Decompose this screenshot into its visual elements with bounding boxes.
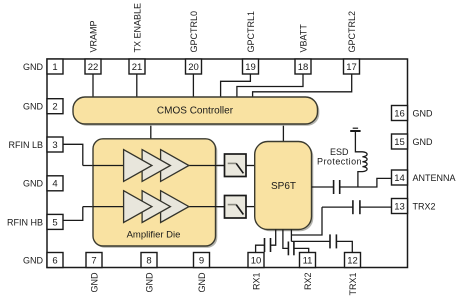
svg-text:21: 21 (132, 62, 143, 73)
svg-text:12: 12 (347, 255, 358, 266)
svg-text:6: 6 (52, 255, 57, 266)
wire RX2 capacitor to pin11 (294, 248, 309, 252)
svg-text:GND: GND (23, 102, 44, 112)
pin 20 (186, 59, 202, 74)
capacitor C2 (TRX2 series) (353, 200, 360, 214)
svg-text:GND: GND (197, 272, 207, 293)
svg-text:4: 4 (52, 179, 57, 190)
wire pin17 to CMOS controller (253, 74, 352, 97)
pin 12 (345, 253, 361, 268)
amplifier die shadow (95, 141, 218, 248)
svg-text:GND: GND (413, 137, 434, 147)
svg-text:11: 11 (303, 255, 313, 266)
pin 16 (392, 106, 408, 121)
capacitor C4 (RX1 series) (265, 238, 271, 252)
pin 4 (47, 176, 63, 191)
pin 14 (392, 170, 408, 185)
svg-text:TRX1: TRX1 (348, 273, 358, 296)
svg-text:GND: GND (23, 179, 44, 189)
wire antenna node to pin14 (340, 178, 392, 187)
svg-text:14: 14 (394, 173, 405, 184)
svg-text:3: 3 (52, 140, 57, 151)
SP6T shadow (257, 143, 314, 231)
svg-text:19: 19 (245, 62, 256, 73)
pin 2 (47, 99, 63, 114)
svg-text:13: 13 (394, 201, 405, 212)
svg-text:ANTENNA: ANTENNA (413, 173, 456, 183)
svg-text:GND: GND (23, 62, 44, 72)
wire pin22 to CMOS controller (92, 74, 94, 97)
pin 13 (392, 199, 408, 214)
svg-text:7: 7 (91, 255, 96, 266)
pin 18 (295, 59, 311, 74)
SP6T switch block (255, 142, 312, 230)
svg-text:8: 8 (146, 255, 151, 266)
package outline (47, 59, 408, 268)
capacitor C1 (antenna series) (334, 180, 340, 194)
wire low-band row inside die (93, 165, 225, 167)
pin 6 (47, 253, 63, 268)
wire low-band amplifier row (83, 165, 225, 167)
svg-text:CMOS Controller: CMOS Controller (157, 106, 234, 117)
amplifier die block (93, 139, 216, 246)
CMOS controller block (73, 97, 318, 124)
wire CMOS controller to SP6T (282, 124, 284, 142)
svg-text:17: 17 (346, 62, 357, 73)
pin 11 (300, 253, 316, 268)
svg-text:2: 2 (52, 102, 57, 113)
svg-text:GPCTRL2: GPCTRL2 (347, 11, 357, 53)
wire pin21 to CMOS controller (136, 74, 138, 97)
pin 22 (85, 59, 101, 74)
svg-text:1: 1 (52, 62, 57, 73)
capacitor C5 (RX2 series) (288, 242, 294, 256)
svg-text:VBATT: VBATT (298, 24, 308, 53)
svg-text:15: 15 (394, 137, 405, 148)
svg-text:ESD: ESD (330, 147, 349, 157)
wire filter FL1 to SP6T (246, 165, 255, 167)
svg-text:22: 22 (88, 62, 99, 73)
wire CMOS controller to amplifier die (150, 124, 152, 139)
wire RX1 capacitor to pin10 (256, 245, 265, 252)
svg-text:16: 16 (394, 108, 405, 119)
amplifier A1 (low band, triple triangle) (124, 150, 189, 182)
pin 1 (47, 59, 63, 74)
svg-text:GND: GND (23, 255, 44, 265)
wire SP6T to RX1 capacitor (271, 230, 276, 246)
svg-text:GPCTRL1: GPCTRL1 (246, 11, 256, 53)
wire filter FL2 to SP6T (246, 206, 255, 208)
wire TRX2 capacitor to pin13 (360, 206, 392, 208)
svg-text:GPCTRL0: GPCTRL0 (189, 11, 199, 53)
wire high-band amplifier row (83, 206, 225, 208)
pin 10 (248, 253, 264, 268)
wire TRX1 branch to capacitor (291, 240, 330, 242)
svg-text:10: 10 (251, 255, 262, 266)
wire RFIN HB from pin5 to amplifier input (63, 207, 83, 221)
svg-text:RFIN HB: RFIN HB (7, 217, 43, 227)
svg-text:GND: GND (144, 272, 154, 293)
wire TRX2 branch to capacitor (322, 206, 353, 208)
amplifier A2 (high band, triple triangle) (124, 191, 189, 223)
wire high-band row inside die (93, 206, 225, 208)
svg-text:Amplifier Die: Amplifier Die (127, 230, 181, 241)
wire RFIN LB from pin3 to amplifier input (63, 144, 83, 165)
inductor L1 (ESD protection) (355, 132, 367, 188)
pin 19 (243, 59, 259, 74)
svg-text:TX ENABLE: TX ENABLE (132, 3, 142, 53)
antenna symbol (350, 128, 360, 131)
svg-text:GND: GND (413, 108, 434, 118)
capacitor C3 (TRX1 series) (330, 234, 336, 248)
wire SP6T to RX2 capacitor (283, 230, 289, 249)
pin 17 (344, 59, 360, 74)
svg-text:VRAMP: VRAMP (88, 20, 98, 52)
svg-text:GND: GND (89, 272, 99, 293)
svg-text:20: 20 (188, 62, 199, 73)
wire TRX1 capacitor to pin12 (336, 241, 352, 252)
wire pin19 to CMOS controller (221, 74, 251, 97)
svg-text:RX2: RX2 (303, 273, 313, 291)
pin 15 (392, 134, 408, 149)
pin 21 (129, 59, 145, 74)
wire SP6T to antenna capacitor (312, 186, 334, 188)
pin 7 (86, 253, 102, 268)
svg-text:TRX2: TRX2 (413, 201, 436, 211)
pin 3 (47, 137, 63, 152)
svg-text:9: 9 (199, 255, 204, 266)
wire pin18 to CMOS controller (237, 74, 303, 97)
low-pass filter FL1 (225, 154, 247, 177)
svg-text:Protection: Protection (317, 157, 362, 167)
pin 8 (141, 253, 157, 268)
CMOS controller shadow (75, 99, 319, 126)
svg-text:RFIN LB: RFIN LB (8, 140, 43, 150)
svg-text:18: 18 (298, 62, 309, 73)
wire pin20 to CMOS controller (192, 74, 194, 97)
wire TRX node to TRX2 riser (291, 207, 322, 235)
wire SP6T to TRX node (290, 230, 292, 242)
svg-text:RX1: RX1 (251, 273, 261, 291)
svg-text:SP6T: SP6T (271, 181, 296, 192)
pin 9 (194, 253, 210, 268)
low-pass filter FL2 (225, 196, 247, 219)
pin 5 (47, 214, 63, 229)
svg-text:5: 5 (52, 217, 57, 228)
